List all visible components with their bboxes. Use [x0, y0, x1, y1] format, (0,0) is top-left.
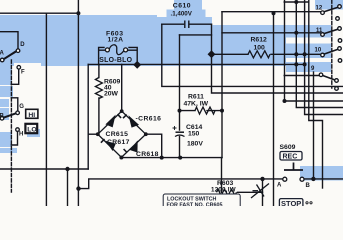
svg-text:150: 150	[188, 131, 200, 138]
svg-text:A: A	[0, 51, 5, 57]
svg-text:R612: R612	[251, 37, 267, 44]
svg-text:R611: R611	[188, 94, 204, 101]
svg-text:D: D	[20, 42, 25, 48]
svg-text:HI: HI	[28, 112, 35, 119]
svg-text:20W: 20W	[104, 91, 119, 98]
svg-text:100: 100	[254, 45, 266, 52]
svg-text:FOR FAST NO. CR605: FOR FAST NO. CR605	[167, 203, 223, 207]
svg-text:12: 12	[316, 5, 323, 11]
svg-text:REC: REC	[283, 154, 298, 161]
svg-text:C610: C610	[173, 3, 191, 10]
svg-text:180V: 180V	[187, 141, 203, 148]
svg-text:G: G	[19, 104, 24, 110]
svg-text:B: B	[306, 183, 311, 189]
svg-text:47K, IW: 47K, IW	[184, 101, 209, 108]
svg-text:1/2A: 1/2A	[108, 37, 124, 44]
svg-text:11: 11	[316, 28, 323, 34]
svg-text:F: F	[21, 70, 25, 76]
svg-text:S609: S609	[280, 144, 296, 151]
svg-text:SLO-BLO: SLO-BLO	[99, 57, 132, 64]
svg-text:LO: LO	[27, 127, 36, 134]
svg-text:1200,IW: 1200,IW	[211, 186, 236, 193]
svg-text:CR618: CR618	[136, 151, 159, 158]
svg-text:10: 10	[315, 48, 322, 54]
svg-text:CR617: CR617	[107, 139, 130, 146]
svg-text:H: H	[19, 132, 23, 138]
svg-text:STOP: STOP	[281, 199, 301, 206]
svg-text:.1,400V: .1,400V	[171, 10, 193, 17]
svg-text:CR615: CR615	[106, 131, 129, 138]
svg-text:B: B	[0, 114, 5, 120]
svg-text:A: A	[277, 183, 282, 189]
svg-text:-CR616: -CR616	[136, 116, 162, 123]
